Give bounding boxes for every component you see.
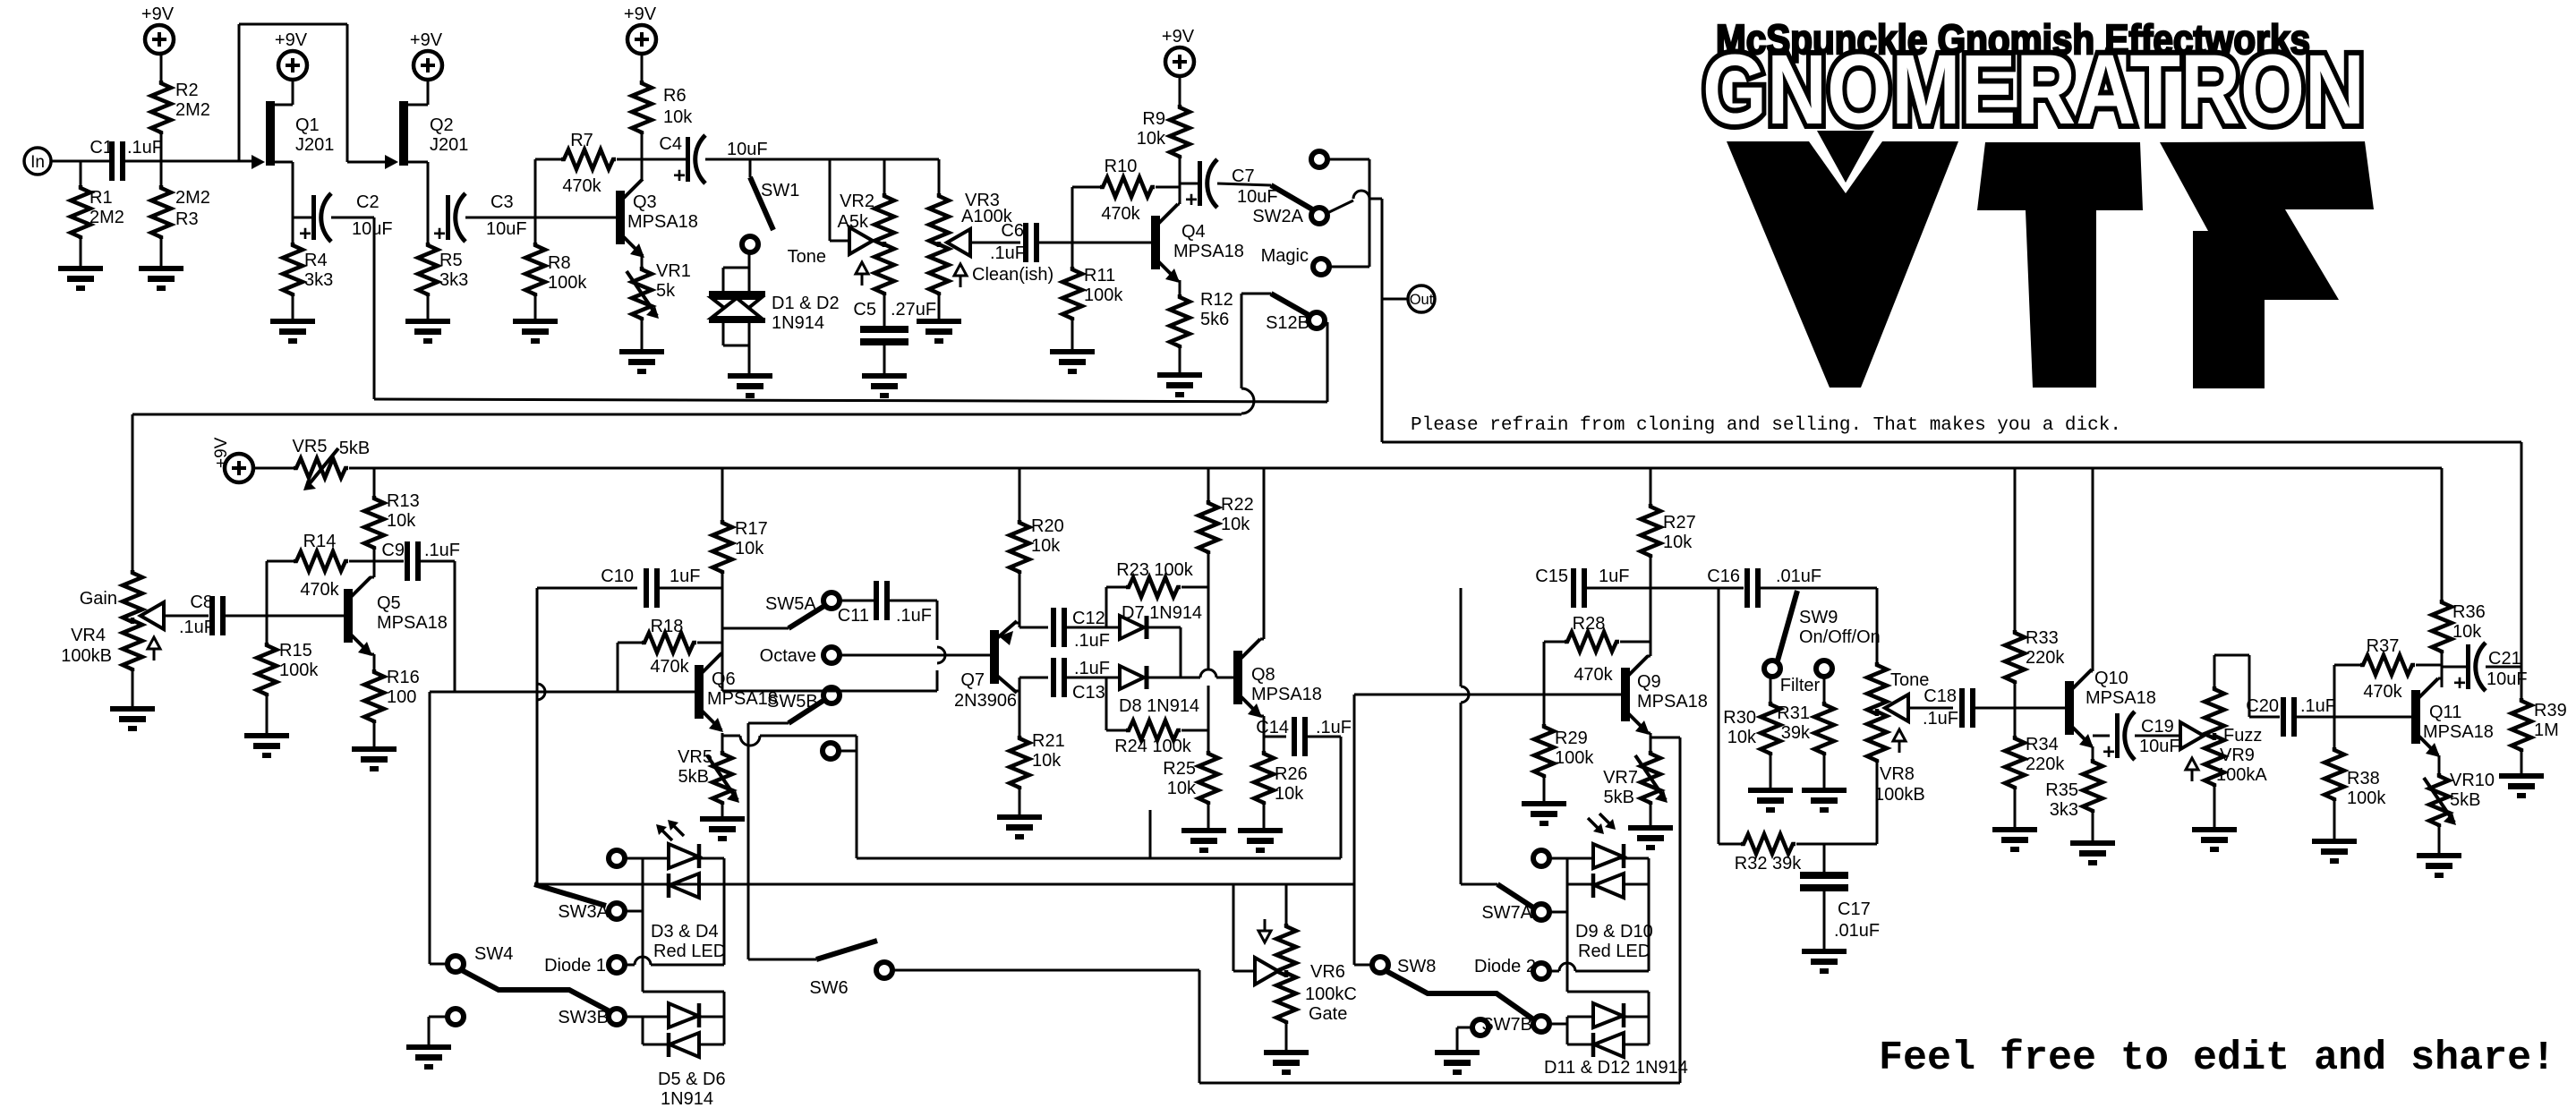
switch SW5B: [748, 687, 840, 723]
svg-text:2M2: 2M2: [175, 100, 210, 120]
svg-text:.01uF: .01uF: [1834, 921, 1880, 941]
svg-text:SW4: SW4: [474, 944, 513, 964]
svg-text:C4: C4: [659, 134, 682, 154]
svg-text:Tone: Tone: [788, 247, 826, 267]
potentiometer VR4 Gain 100kB: [61, 570, 209, 706]
wire tone tap: [830, 159, 853, 241]
svg-text:VR7: VR7: [1603, 768, 1638, 788]
svg-text:SW5B: SW5B: [767, 692, 818, 712]
svg-text:C11: C11: [838, 606, 869, 626]
wire Q6 emitter tap: [722, 736, 857, 746]
svg-text:10k: 10k: [1032, 751, 1062, 771]
svg-text:Q1: Q1: [295, 115, 320, 135]
ground VR6: [1264, 1050, 1309, 1075]
ground SW8: [1435, 1050, 1480, 1075]
svg-text:Q2: Q2: [430, 115, 454, 135]
svg-text:Please refrain from cloning an: Please refrain from cloning and selling.…: [1411, 415, 2121, 436]
svg-text:+9V: +9V: [212, 437, 231, 468]
svg-text:2N3906: 2N3906: [954, 691, 1017, 711]
svg-text:5k: 5k: [656, 281, 676, 301]
svg-text:D9 & D10: D9 & D10: [1575, 922, 1653, 942]
resistor R33: [2005, 468, 2065, 736]
wire Q5 emitter: [370, 654, 374, 669]
svg-text:R33: R33: [2026, 628, 2059, 648]
svg-text:10uF: 10uF: [486, 219, 527, 239]
potentiometer VR5 lower 5kB: [678, 747, 739, 816]
logo text GNOMERATRON: [1702, 35, 2365, 145]
svg-text:+: +: [1185, 188, 1198, 212]
ground R29: [1522, 801, 1566, 826]
contact SW2 top: [1311, 151, 1327, 167]
supply +9V Q4: [1162, 27, 1195, 76]
svg-text:C19: C19: [2141, 717, 2174, 737]
ground R8: [513, 319, 558, 344]
ground R15: [244, 733, 289, 758]
wire R14 left down: [266, 561, 269, 616]
wire C14 out: [1308, 737, 1341, 858]
contact ground sw: [429, 1009, 464, 1044]
svg-text:100kB: 100kB: [61, 646, 112, 666]
svg-text:R36: R36: [2452, 602, 2486, 622]
diodes D5 & D6 1N914: [658, 1003, 726, 1108]
capacitor C13: [1051, 658, 1110, 703]
resistor R30: [1723, 677, 1780, 788]
svg-text:D3 & D4: D3 & D4: [651, 922, 719, 942]
svg-text:.01uF: .01uF: [1776, 567, 1821, 586]
wire LED2 box: [1567, 858, 1649, 1017]
svg-text:.1uF: .1uF: [424, 541, 460, 560]
svg-text:Gate: Gate: [1309, 1004, 1347, 1024]
svg-text:C2: C2: [356, 192, 380, 212]
wire S12B pivot hop: [1241, 294, 1254, 414]
svg-text:Q11: Q11: [2429, 703, 2461, 722]
svg-text:R14: R14: [303, 532, 337, 551]
svg-text:Magic: Magic: [1261, 246, 1309, 266]
svg-text:2M2: 2M2: [175, 188, 210, 208]
contact LED1 upper: [609, 850, 625, 866]
svg-text:10k: 10k: [735, 539, 764, 558]
wire outer box right: [1679, 737, 1682, 1083]
wire effect return B: [132, 413, 1241, 416]
svg-text:Diode 1: Diode 1: [544, 956, 606, 976]
wire Q2 source: [406, 162, 428, 217]
resistor R7: [535, 131, 642, 217]
svg-text:100k: 100k: [1084, 286, 1123, 305]
wire diode junction: [1147, 627, 1181, 678]
svg-text:+9V: +9V: [624, 4, 657, 24]
ground R12: [1157, 372, 1202, 397]
transistor Q10 MPSA18: [2065, 669, 2156, 748]
wire contact to box: [839, 736, 857, 858]
svg-text:Feel free to edit and share!: Feel free to edit and share!: [1879, 1036, 2555, 1081]
svg-text:Red LED: Red LED: [1578, 942, 1651, 961]
resistor R32 39k: [1719, 834, 1877, 874]
svg-text:Q4: Q4: [1181, 222, 1206, 242]
svg-text:220k: 220k: [2026, 648, 2065, 668]
wire Q3 emitter to VR1: [641, 256, 644, 267]
svg-text:SW6: SW6: [809, 978, 848, 998]
resistor R22: [1198, 468, 1254, 669]
supply +9V Q1: [275, 30, 308, 80]
contact Octave: [760, 646, 840, 666]
svg-text:Out: Out: [1410, 292, 1434, 308]
svg-text:R1: R1: [90, 188, 113, 208]
svg-text:R15: R15: [279, 641, 312, 661]
wire C19 to VR9 wiper: [2135, 735, 2180, 737]
svg-text:.1uF: .1uF: [127, 138, 163, 158]
wire In to C1: [51, 160, 109, 163]
svg-text:MPSA18: MPSA18: [2423, 722, 2494, 742]
ground R1: [58, 266, 103, 291]
potentiometer VR1 5k: [627, 261, 691, 349]
svg-text:VR2: VR2: [840, 192, 874, 211]
svg-text:VR5: VR5: [293, 437, 328, 456]
svg-text:3k3: 3k3: [439, 270, 468, 290]
svg-text:+: +: [299, 222, 311, 246]
svg-text:MPSA18: MPSA18: [1251, 685, 1322, 704]
node Out (output jack): [1408, 286, 1435, 312]
svg-text:R21: R21: [1032, 731, 1065, 751]
resistor R28: [1544, 614, 1651, 695]
resistor R35: [2045, 759, 2103, 840]
switch SW5A: [722, 592, 840, 628]
wire Q6 emitter: [721, 730, 722, 751]
switch SW4: [430, 944, 513, 972]
svg-text:10uF: 10uF: [727, 140, 768, 159]
wire box mid riser: [1149, 810, 1152, 858]
transistor Q3 MPSA18: [616, 179, 698, 258]
wire out return rail: [1382, 442, 2521, 698]
svg-text:10k: 10k: [1031, 536, 1061, 556]
svg-text:10k: 10k: [1663, 533, 1693, 552]
svg-text:R9: R9: [1142, 109, 1165, 129]
wire gate to SW8: [1354, 695, 1371, 965]
svg-text:R28: R28: [1573, 614, 1606, 634]
switch SW3A: [534, 884, 643, 922]
transistor Q8 MPSA18: [1233, 639, 1322, 718]
resistor R36: [2432, 468, 2486, 687]
potentiometer VR2 A5k: [788, 159, 894, 295]
resistor R16: [364, 668, 420, 746]
svg-text:R3: R3: [175, 209, 199, 229]
wire C16 left drop: [1718, 588, 1720, 844]
capacitor C3: [433, 192, 527, 246]
wire C18 to Q10 base: [1975, 707, 2065, 710]
ground C17: [1802, 949, 1847, 974]
svg-text:R10: R10: [1105, 157, 1138, 176]
svg-text:MPSA18: MPSA18: [627, 212, 698, 232]
switch SW2A: [1252, 185, 1327, 226]
svg-text:100kB: 100kB: [1874, 785, 1925, 805]
ground R11: [1050, 349, 1095, 374]
svg-text:470k: 470k: [1101, 204, 1140, 224]
svg-text:100: 100: [387, 687, 416, 707]
svg-text:VR4: VR4: [71, 626, 106, 645]
svg-text:VR9: VR9: [2220, 746, 2255, 765]
supply +9V R6: [624, 4, 657, 54]
svg-text:C15: C15: [1535, 567, 1568, 586]
diode D8 1N914: [1119, 666, 1199, 716]
resistor R29: [1534, 695, 1594, 801]
wire C3 to Q3 base: [465, 217, 616, 219]
svg-text:R2: R2: [175, 81, 199, 100]
potentiometer VR5 top 5kB: [253, 437, 374, 490]
resistor R8: [525, 217, 587, 319]
svg-text:C16: C16: [1707, 567, 1740, 586]
svg-text:Diode 2: Diode 2: [1474, 957, 1536, 976]
capacitor C14: [1256, 717, 1352, 756]
resistor R24: [1106, 678, 1208, 756]
resistor R15: [257, 616, 319, 733]
svg-text:C9: C9: [381, 541, 405, 560]
ground R39: [2499, 773, 2544, 798]
diodes D11 & D12 1N914: [1544, 1003, 1688, 1078]
diodes D5 & D6 box: [643, 1017, 724, 1044]
wire bypass send A: [374, 399, 1327, 402]
capacitor C2: [293, 192, 393, 246]
resistor R2: [151, 54, 210, 161]
svg-text:10uF: 10uF: [1237, 187, 1278, 207]
svg-text:D5 & D6: D5 & D6: [658, 1070, 726, 1089]
svg-text:R38: R38: [2347, 769, 2380, 788]
resistor R37: [2334, 636, 2442, 717]
svg-text:R35: R35: [2045, 780, 2078, 800]
wire C1 to Q1 gate: [125, 160, 252, 163]
transistor Q5 MPSA18: [344, 577, 448, 656]
wire C16 out: [1761, 587, 1877, 590]
wire Q11 collector: [2438, 667, 2442, 678]
svg-text:C18: C18: [1923, 686, 1957, 706]
wire C13 to D8: [1067, 677, 1120, 679]
potentiometer VR8 Tone 100kB: [1867, 588, 1953, 844]
svg-text:Q7: Q7: [960, 670, 985, 690]
svg-text:+9V: +9V: [141, 4, 175, 24]
switch SW1: [742, 159, 799, 252]
svg-text:D8 1N914: D8 1N914: [1119, 696, 1199, 716]
svg-text:VR5: VR5: [678, 747, 712, 767]
svg-text:GNOMERATRON: GNOMERATRON: [1702, 35, 2365, 145]
svg-text:J201: J201: [295, 135, 334, 155]
svg-text:MPSA18: MPSA18: [1637, 692, 1708, 712]
svg-text:10uF: 10uF: [2139, 737, 2180, 756]
switch SW3B: [558, 1008, 643, 1027]
svg-text:5k6: 5k6: [1200, 310, 1229, 329]
wire C12 to D7: [1067, 626, 1120, 629]
contact SW6 upper: [823, 743, 839, 759]
capacitor C15: [1535, 567, 1629, 608]
svg-text:D11 & D12 1N914: D11 & D12 1N914: [1544, 1058, 1688, 1078]
resistor R31: [1777, 677, 1834, 788]
svg-text:C3: C3: [490, 192, 514, 212]
svg-text:R22: R22: [1221, 495, 1254, 515]
svg-text:D1 & D2: D1 & D2: [772, 294, 840, 313]
LED D9 & D10: [1575, 814, 1653, 961]
potentiometer VR7 5kB: [1603, 751, 1668, 825]
wire Q11 emitter: [2437, 755, 2439, 773]
ground SW4: [406, 1044, 451, 1070]
wire Diode2 hop: [1549, 963, 1649, 971]
wire Q7 collector: [1014, 678, 1048, 736]
svg-text:+: +: [2453, 671, 2466, 695]
diodes D11 & D12 box: [1567, 1017, 1649, 1044]
svg-text:10k: 10k: [1221, 515, 1250, 534]
ground VR1: [619, 349, 664, 374]
ground VR10: [2417, 853, 2461, 878]
svg-text:R39: R39: [2534, 701, 2567, 720]
wire C11 loop: [722, 601, 945, 691]
wire C2 out down (bypass send A): [331, 217, 374, 399]
ground VR7: [1628, 825, 1673, 850]
svg-text:3k3: 3k3: [2050, 800, 2078, 820]
wire LED1 box: [625, 858, 724, 1017]
switch SW7B: [1481, 1015, 1567, 1035]
diodes D1 & D2 1N914: [709, 253, 840, 373]
resistor R25: [1163, 751, 1218, 828]
svg-text:1uF: 1uF: [670, 567, 700, 586]
ground VR5 lower: [700, 816, 745, 841]
resistor R5: [418, 217, 468, 319]
wire Q8 emitter: [1259, 716, 1286, 751]
transistor Q9 MPSA18: [1621, 656, 1708, 735]
svg-text:Octave: Octave: [760, 646, 816, 666]
resistor R38: [2324, 717, 2386, 839]
ground VR9: [2192, 827, 2237, 852]
svg-text:5kB: 5kB: [1604, 788, 1634, 807]
capacitor C19: [2103, 712, 2180, 764]
svg-text:R27: R27: [1663, 513, 1696, 533]
resistor R6: [632, 54, 693, 179]
ground R34: [1992, 827, 2037, 852]
svg-text:C6: C6: [1001, 221, 1024, 241]
svg-text:R12: R12: [1200, 290, 1233, 310]
svg-text:.1uF: .1uF: [2300, 696, 2336, 716]
svg-text:R29: R29: [1555, 729, 1588, 748]
wire SW4 drop: [429, 692, 431, 956]
svg-text:1uF: 1uF: [1599, 567, 1629, 586]
wire C6 to Q4 base: [1039, 242, 1151, 244]
wire SW2A out with hop: [1327, 191, 1382, 213]
wire Q1 drain to +9V: [273, 80, 293, 105]
capacitor C8: [179, 592, 226, 637]
capacitor C17 .01uF: [1800, 844, 1880, 949]
svg-text:SW9: SW9: [1799, 608, 1838, 627]
svg-text:R4: R4: [304, 251, 328, 270]
wire gate net: [534, 883, 1354, 886]
text share note: [1879, 1036, 2555, 1081]
svg-text:R11: R11: [1084, 266, 1115, 286]
transistor Q6 MPSA18: [695, 653, 778, 732]
svg-text:SW3B: SW3B: [558, 1008, 609, 1027]
switch SW6: [748, 941, 892, 998]
svg-text:.1uF: .1uF: [1923, 709, 1958, 729]
svg-text:100k: 100k: [548, 273, 587, 293]
wire C4 out: [705, 158, 939, 161]
ground R26: [1238, 828, 1283, 853]
wire SW1 to D1 D2: [748, 252, 751, 270]
svg-text:1N914: 1N914: [661, 1089, 713, 1108]
resistor R21: [1010, 731, 1065, 814]
wire SW2 top to Magic: [1327, 159, 1369, 267]
wire Q9 collector: [1647, 588, 1651, 656]
wire Q6 collector: [721, 572, 722, 691]
svg-text:10uF: 10uF: [352, 219, 393, 239]
capacitor C11: [838, 581, 937, 626]
capacitor C1: [90, 138, 163, 181]
svg-text:C14: C14: [1256, 718, 1289, 737]
svg-text:10k: 10k: [1275, 784, 1304, 804]
node In (input jack): [24, 148, 51, 175]
capacitor C7: [1180, 159, 1278, 212]
wire Q9 base line: [1354, 694, 1621, 696]
ground R31: [1802, 788, 1847, 813]
svg-text:Q10: Q10: [2094, 669, 2128, 688]
svg-text:.1uF: .1uF: [1074, 631, 1110, 651]
switch SW7A: [1461, 884, 1567, 923]
capacitor C4: [642, 134, 768, 188]
svg-text:100kA: 100kA: [2216, 765, 2267, 785]
wire S12B contact down: [1326, 322, 1327, 402]
wire Q5 collector: [370, 561, 374, 577]
svg-text:VR10: VR10: [2450, 771, 2495, 790]
svg-text:.1uF: .1uF: [1074, 659, 1110, 678]
wire Q4 emitter: [1179, 280, 1181, 294]
switch S12B: [1241, 294, 1325, 333]
svg-text:R7: R7: [570, 131, 593, 150]
resistor R26: [1254, 751, 1308, 828]
svg-text:10k: 10k: [1137, 129, 1166, 149]
svg-text:VR6: VR6: [1310, 962, 1345, 982]
wire bottom rail: [1199, 1082, 1680, 1085]
svg-text:3k3: 3k3: [304, 270, 333, 290]
logo text McSpunckle Gnomish Effectworks: [1716, 16, 2310, 63]
resistor R9: [1137, 76, 1190, 204]
svg-text:.1uF: .1uF: [896, 606, 932, 626]
svg-text:R6: R6: [663, 86, 687, 106]
svg-text:+9V: +9V: [275, 30, 308, 50]
wire gate loop Q1 to Q2: [239, 24, 387, 162]
svg-text:5kB: 5kB: [339, 439, 370, 458]
svg-text:C5: C5: [853, 300, 876, 320]
svg-text:R5: R5: [439, 251, 463, 270]
resistor R17: [712, 468, 768, 628]
svg-text:C12: C12: [1072, 609, 1105, 628]
svg-text:On/Off/On: On/Off/On: [1799, 627, 1881, 647]
wire Out vertical: [1382, 199, 1407, 442]
contact Diode 1: [544, 956, 625, 976]
svg-text:10k: 10k: [2452, 622, 2482, 642]
text disclaimer: [1411, 415, 2121, 436]
svg-text:C8: C8: [190, 592, 213, 612]
diode D7 1N914: [1120, 603, 1202, 639]
svg-text:Fuzz: Fuzz: [2223, 726, 2262, 746]
capacitor C12: [1051, 608, 1110, 651]
potentiometer VR6 100kC Gate: [1233, 884, 1357, 1050]
svg-text:Q5: Q5: [377, 593, 401, 613]
wire Q2 drain to +9V: [406, 80, 428, 105]
ground R38: [2312, 839, 2357, 864]
resistor R39: [2512, 698, 2567, 773]
svg-text:S12B: S12B: [1266, 313, 1309, 333]
svg-text:R8: R8: [548, 253, 571, 273]
svg-text:Filter: Filter: [1780, 676, 1821, 695]
wire +9V rail lower: [374, 467, 2442, 470]
svg-text:1M: 1M: [2534, 720, 2559, 740]
wire Q10 emitter: [2091, 736, 2110, 759]
ground R30: [1748, 788, 1793, 813]
transistor Q11 MPSA18: [2411, 678, 2494, 757]
svg-text:SW5A: SW5A: [765, 594, 816, 614]
resistor R14: [267, 532, 404, 600]
